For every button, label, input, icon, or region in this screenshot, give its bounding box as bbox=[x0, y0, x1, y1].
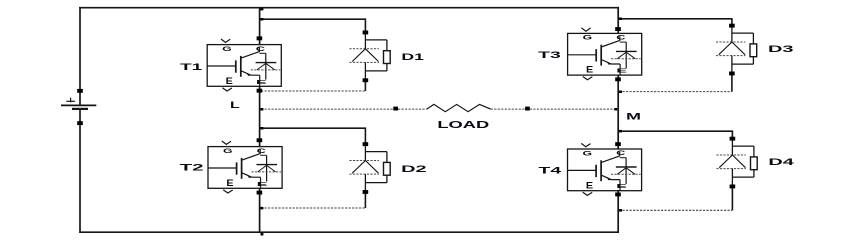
node T1 collector bbox=[257, 36, 263, 40]
svg-text:D3: D3 bbox=[768, 44, 794, 54]
battery plus sign bbox=[66, 98, 75, 103]
svg-text:L: L bbox=[230, 100, 241, 110]
node T4 emitter bbox=[615, 193, 621, 197]
battery positive plate bbox=[61, 104, 96, 106]
wire D2 bottom stub bbox=[364, 192, 366, 208]
transistor T4 bbox=[568, 143, 642, 195]
bottom rail bbox=[79, 231, 619, 233]
node T2 collector bbox=[257, 138, 263, 142]
node D4 bottom bbox=[730, 185, 736, 189]
node D2 bottom bbox=[363, 190, 369, 194]
wire LOAD right connector to bus bbox=[530, 108, 618, 110]
junction left bus / D2 link bbox=[261, 127, 264, 130]
svg-text:LOAD: LOAD bbox=[437, 120, 489, 131]
wire bus to D3 top bbox=[618, 19, 732, 26]
left wire lower (from battery bottom plate) bbox=[79, 109, 81, 233]
LOAD left connector square bbox=[393, 107, 398, 111]
wire bus to LOAD left connector bbox=[261, 108, 393, 110]
node D2 top bbox=[363, 142, 369, 146]
wire D1 bottom to T1 emitter node bbox=[261, 90, 365, 92]
battery negative plate bbox=[72, 108, 88, 110]
junction right bus / D3 link bbox=[619, 18, 622, 21]
LOAD right connector square bbox=[525, 107, 530, 111]
svg-text:T4: T4 bbox=[539, 166, 562, 176]
svg-text:T1: T1 bbox=[180, 62, 202, 72]
wire D3 bottom to bus bbox=[619, 91, 732, 93]
wire bus to D4 top bbox=[618, 131, 732, 138]
junction left bus / D2 bottom link bbox=[261, 207, 264, 210]
node D3 top bbox=[729, 24, 735, 28]
wire D4 bottom stub bbox=[731, 186, 733, 210]
wire LOAD left connector to resistor bbox=[398, 108, 427, 110]
diode D2 bbox=[349, 146, 390, 191]
svg-text:D4: D4 bbox=[768, 157, 794, 167]
transistor T1 bbox=[207, 39, 281, 91]
junction right bus / D4 bottom link bbox=[619, 209, 622, 212]
top rail bbox=[79, 7, 619, 9]
wire bus to D1 top bbox=[260, 19, 366, 32]
node T2 emitter bbox=[257, 191, 263, 195]
wire resistor to LOAD right connector bbox=[491, 108, 525, 110]
node T3 emitter (M bus) bbox=[615, 77, 621, 81]
svg-text:T3: T3 bbox=[538, 50, 561, 60]
node T4 collector bbox=[615, 142, 621, 146]
resistor LOAD zigzag bbox=[427, 104, 491, 111]
junction right bus / LOAD wire bbox=[614, 108, 617, 111]
right bus: T3 to T4 bbox=[617, 75, 619, 149]
junction left bus / LOAD wire bbox=[261, 108, 264, 111]
wire D1 bottom stub bbox=[364, 80, 366, 91]
svg-text:D2: D2 bbox=[401, 164, 427, 174]
junction right bus / D3 bottom link bbox=[619, 91, 622, 94]
transistor T2 bbox=[208, 141, 282, 193]
left bus: T1 to T2 bbox=[259, 86, 261, 146]
left wire upper (to battery top plate) bbox=[79, 7, 81, 106]
junction left bus / D1 link bbox=[261, 18, 264, 21]
wire D3 bottom stub bbox=[731, 73, 733, 91]
node D1 bottom bbox=[363, 78, 369, 82]
node T3 collector bbox=[615, 27, 621, 31]
junction left bus / top rail bbox=[261, 8, 264, 10]
node T1 emitter (L bus) bbox=[257, 89, 263, 93]
junction right bus / D4 link bbox=[619, 130, 622, 133]
junction left bus / bottom rail bbox=[261, 233, 264, 236]
wire bus to D2 top bbox=[260, 128, 366, 144]
wire D2 bottom to bus bbox=[261, 207, 365, 209]
node D3 bottom bbox=[729, 72, 735, 76]
left bus: T2 to bottom rail bbox=[259, 188, 261, 233]
wire D4 bottom to bus bbox=[619, 209, 732, 211]
battery terminal node bottom bbox=[77, 121, 83, 125]
left bus: rail to T1 bbox=[259, 8, 261, 45]
node D1 top bbox=[363, 31, 369, 35]
right bus: T4 to bottom rail bbox=[617, 190, 619, 233]
battery terminal node top bbox=[77, 89, 83, 93]
node D4 top bbox=[730, 137, 736, 141]
transistor T3 bbox=[568, 28, 642, 80]
svg-text:D1: D1 bbox=[401, 52, 424, 62]
right bus: rail to T3 bbox=[617, 7, 619, 34]
diode D1 bbox=[349, 34, 390, 79]
svg-text:M: M bbox=[626, 112, 641, 122]
diode D3 bbox=[716, 27, 757, 71]
diode D4 bbox=[716, 140, 757, 185]
svg-text:T2: T2 bbox=[180, 163, 204, 173]
